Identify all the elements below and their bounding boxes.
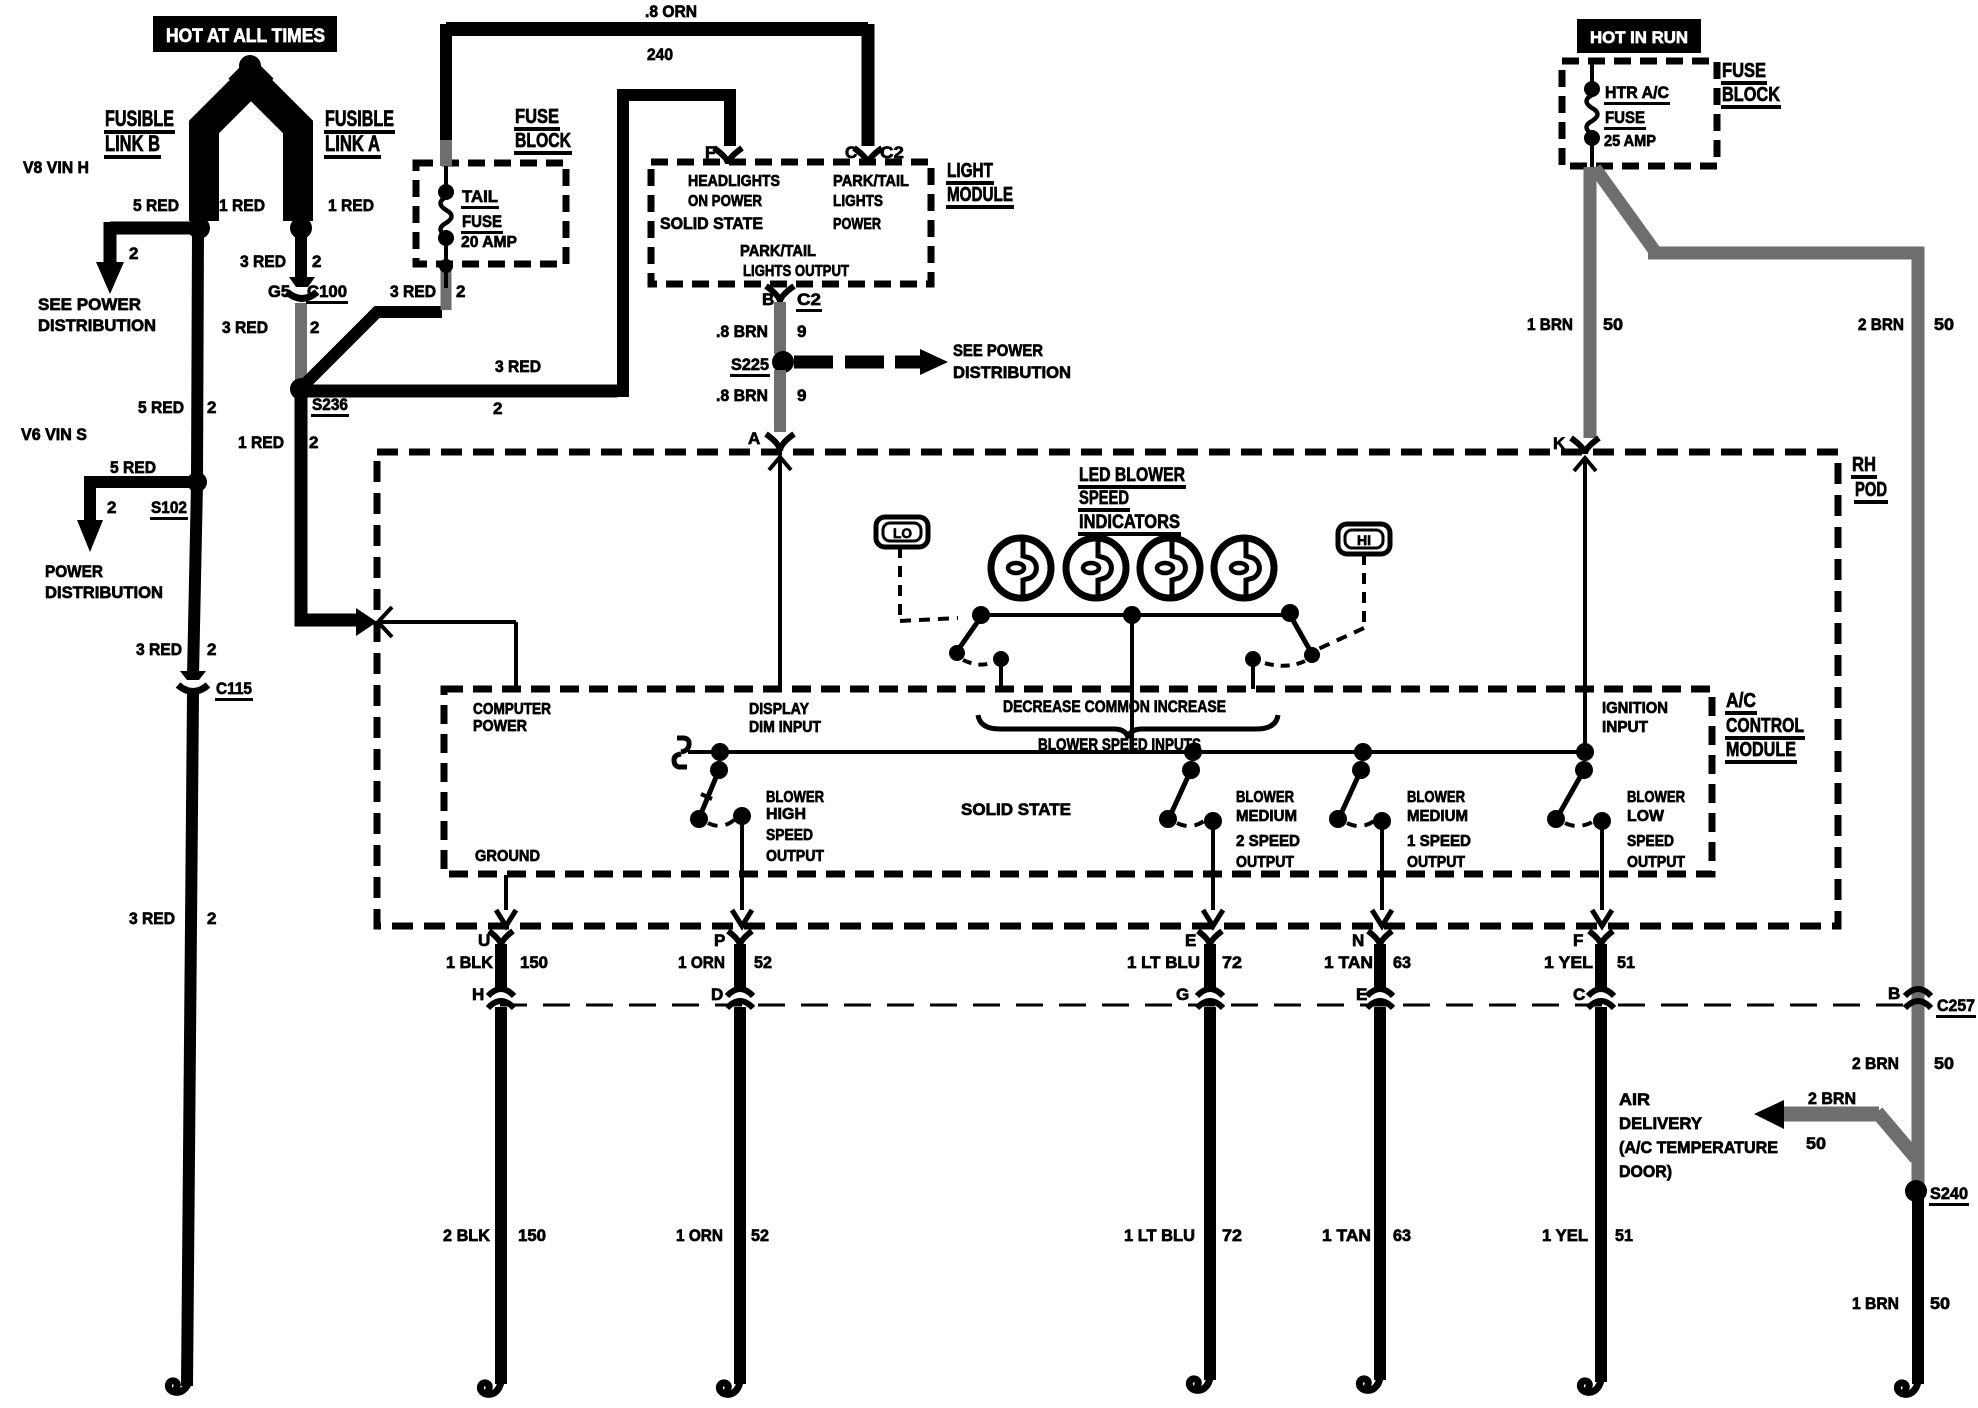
svg-text:1 SPEED: 1 SPEED — [1407, 833, 1471, 850]
svg-text:V8 VIN H: V8 VIN H — [23, 158, 89, 177]
svg-text:50: 50 — [1603, 315, 1623, 334]
LED indicator 2 — [1066, 538, 1126, 598]
label SEE POWER DISTRIBUTION (left) — [38, 295, 156, 335]
svg-text:S236: S236 — [312, 395, 348, 414]
label park/tail lights output — [740, 243, 849, 280]
svg-text:SPEED: SPEED — [766, 827, 813, 844]
LO button — [876, 517, 928, 547]
svg-text:240: 240 — [647, 45, 673, 64]
svg-text:FUSE: FUSE — [462, 212, 502, 231]
svg-text:2: 2 — [207, 640, 216, 659]
splice S236 node — [290, 378, 312, 400]
svg-text:SPEED: SPEED — [1627, 833, 1674, 850]
svg-text:G5: G5 — [268, 282, 290, 301]
label solid state (light module) — [660, 214, 763, 233]
svg-text:.8 BRN: .8 BRN — [716, 386, 768, 405]
label pin G — [1176, 985, 1189, 1004]
svg-text:LIGHT: LIGHT — [947, 160, 993, 182]
svg-text:1 YEL: 1 YEL — [1542, 1226, 1588, 1245]
svg-text:F: F — [1573, 931, 1583, 950]
label 5 RED (fusible link B) — [133, 196, 179, 215]
svg-text:TAIL: TAIL — [462, 187, 498, 206]
fusible link A — [239, 68, 298, 221]
rotary switch increase contact — [1245, 615, 1320, 689]
label park/tail lights power — [833, 173, 909, 233]
air delivery arrow 2 BRN — [1754, 1100, 1916, 1158]
svg-text:1 LT BLU: 1 LT BLU — [1124, 1226, 1195, 1245]
svg-text:LINK B: LINK B — [105, 131, 160, 156]
svg-text:BLOWER: BLOWER — [766, 789, 824, 806]
svg-text:BLOWER: BLOWER — [1627, 789, 1685, 806]
svg-text:S240: S240 — [1930, 1184, 1968, 1203]
svg-text:A: A — [748, 429, 760, 448]
connector C115 symbol — [178, 671, 208, 692]
pin K chevron on RH POD — [1571, 438, 1599, 473]
svg-text:1 RED: 1 RED — [328, 196, 374, 215]
svg-text:1 TAN: 1 TAN — [1322, 1226, 1371, 1245]
svg-text:3 RED: 3 RED — [222, 318, 268, 337]
svg-text:1 BRN: 1 BRN — [1527, 315, 1573, 334]
label SEE POWER DISTRIBUTION (S225) — [953, 341, 1071, 382]
svg-text:BLOWER: BLOWER — [1407, 789, 1465, 806]
svg-text:2 BRN: 2 BRN — [1808, 1089, 1856, 1108]
wire stub below tail fuse (halftone) — [441, 264, 452, 310]
svg-text:2: 2 — [207, 398, 216, 417]
svg-text:U: U — [478, 931, 490, 950]
svg-text:OUTPUT: OUTPUT — [1407, 854, 1465, 871]
A/C control module dashed box — [444, 689, 1712, 874]
svg-text:ON POWER: ON POWER — [688, 193, 762, 210]
pin F chevron on light module — [714, 148, 742, 164]
svg-text:IGNITION: IGNITION — [1602, 700, 1668, 717]
svg-text:C: C — [845, 143, 857, 162]
wire end continuation squiggle (left main) — [168, 1374, 189, 1392]
svg-text:52: 52 — [751, 1226, 769, 1245]
label 1 LT BLU 72 (upper) — [1127, 953, 1242, 972]
svg-text:2 SPEED: 2 SPEED — [1236, 833, 1300, 850]
label 2 (branch) — [129, 244, 138, 263]
label HOT IN RUN — [1577, 19, 1701, 53]
svg-text:PARK/TAIL: PARK/TAIL — [740, 243, 816, 260]
wire 1 YEL below C257 — [1580, 1007, 1601, 1392]
label HTR A/C FUSE 25 AMP — [1604, 83, 1670, 150]
svg-text:1 TAN: 1 TAN — [1324, 953, 1373, 972]
svg-text:LED BLOWER: LED BLOWER — [1079, 465, 1185, 486]
connector D chevrons — [727, 989, 753, 1008]
svg-text:HOT IN RUN: HOT IN RUN — [1590, 28, 1688, 47]
svg-text:MEDIUM: MEDIUM — [1407, 808, 1468, 825]
svg-text:3 RED: 3 RED — [240, 252, 286, 271]
svg-text:2 BRN: 2 BRN — [1858, 315, 1904, 334]
connector C257 dashed line — [500, 1004, 1908, 1007]
svg-text:D: D — [711, 985, 723, 1004]
blower low speed switch — [1547, 743, 1612, 926]
wire end squiggle right — [1897, 1376, 1918, 1394]
label pin E (c257) — [1356, 985, 1367, 1004]
label pin P — [714, 931, 725, 950]
label 3 RED (riser) — [495, 357, 541, 376]
svg-text:5 RED: 5 RED — [133, 196, 179, 215]
svg-text:SOLID STATE: SOLID STATE — [660, 214, 763, 233]
label HI — [1357, 532, 1371, 548]
svg-text:F: F — [705, 143, 715, 162]
svg-text:COMPUTER: COMPUTER — [473, 701, 551, 718]
label DISPLAY DIM INPUT — [749, 701, 821, 736]
svg-text:FUSIBLE: FUSIBLE — [105, 106, 174, 131]
svg-text:B: B — [1888, 984, 1900, 1003]
wire 2 BRN below S240 — [1912, 1194, 1924, 1384]
wire ignition input thin — [1583, 467, 1587, 752]
svg-text:DISTRIBUTION: DISTRIBUTION — [38, 316, 156, 335]
svg-text:1 ORN: 1 ORN — [678, 953, 725, 972]
svg-text:S102: S102 — [151, 498, 187, 517]
svg-text:51: 51 — [1615, 1226, 1633, 1245]
svg-text:5 RED: 5 RED — [138, 398, 184, 417]
label 1 RED 2 — [238, 433, 318, 452]
pin A chevron on RH POD — [766, 434, 794, 472]
svg-text:2: 2 — [207, 909, 216, 928]
label .8 ORN — [645, 2, 697, 21]
svg-text:50: 50 — [1934, 1054, 1954, 1073]
pin N chevron and wire 1 TAN — [1368, 931, 1392, 988]
label 1 ORN 52 (lower) — [676, 1226, 769, 1245]
label POWER DISTRIBUTION — [45, 562, 163, 602]
svg-text:2: 2 — [456, 282, 465, 301]
label C257 — [1936, 996, 1976, 1018]
label V6 VIN S — [21, 425, 87, 444]
label 2 and S102 — [107, 498, 188, 520]
svg-text:S225: S225 — [731, 355, 769, 374]
svg-text:FUSE: FUSE — [1722, 60, 1766, 82]
svg-text:2 BRN: 2 BRN — [1852, 1054, 1899, 1073]
label C115 — [215, 679, 253, 701]
label BLOWER MEDIUM 2 SPEED OUTPUT — [1236, 789, 1300, 871]
svg-text:G: G — [1176, 985, 1189, 1004]
svg-text:POD: POD — [1855, 479, 1887, 501]
blower high speed switch — [690, 743, 752, 926]
label BLOWER MEDIUM 1 SPEED OUTPUT — [1407, 789, 1471, 871]
fuse block (HTR A/C) dashed box — [1562, 61, 1717, 166]
svg-text:9: 9 — [797, 322, 806, 341]
LED indicator 4 — [1214, 538, 1274, 598]
label LED BLOWER SPEED INDICATORS — [1078, 465, 1186, 536]
wire riser to light module pin F — [611, 91, 730, 391]
svg-text:50: 50 — [1930, 1294, 1950, 1313]
wire 1 RED from S236 down then right to RH POD — [301, 394, 356, 620]
svg-text:2: 2 — [107, 498, 116, 517]
svg-text:2: 2 — [493, 399, 502, 418]
label 1 RED (fusible link B) — [219, 196, 265, 215]
svg-text:63: 63 — [1393, 953, 1411, 972]
label A/C CONTROL MODULE — [1725, 690, 1805, 764]
label pin B and C2 — [762, 290, 822, 312]
svg-text:C115: C115 — [216, 679, 252, 698]
wire 5 RED branch to see power distribution with arrow — [96, 222, 199, 294]
label TAIL FUSE 20 AMP — [461, 187, 517, 251]
label HOT AT ALL TIMES — [153, 16, 337, 52]
label SOLID STATE (module) — [961, 800, 1071, 819]
svg-text:1 BLK: 1 BLK — [446, 953, 494, 972]
svg-text:V6 VIN S: V6 VIN S — [21, 425, 87, 444]
HI button — [1338, 524, 1390, 554]
wire S102 branch to power distribution with arrow — [77, 476, 197, 552]
svg-text:2 BLK: 2 BLK — [443, 1226, 491, 1245]
svg-text:1 RED: 1 RED — [238, 433, 284, 452]
pin F chevron and wire 1 YEL — [1589, 931, 1613, 988]
svg-text:SEE POWER: SEE POWER — [38, 295, 141, 314]
svg-text:50: 50 — [1806, 1134, 1826, 1153]
svg-text:50: 50 — [1934, 315, 1954, 334]
label V8 VIN H — [23, 158, 89, 177]
pin P chevron and wire 1 ORN — [728, 931, 752, 988]
label 2 BRN (arrow) — [1808, 1089, 1856, 1108]
svg-text:1 BRN: 1 BRN — [1852, 1294, 1899, 1313]
svg-text:52: 52 — [754, 953, 772, 972]
LED common wire — [972, 604, 1299, 624]
label S236 — [311, 395, 349, 417]
label FUSE BLOCK (htr) — [1721, 60, 1781, 109]
svg-text:150: 150 — [520, 953, 548, 972]
wire 3 RED from C100 down to S236 (halftone) — [295, 303, 307, 383]
label RH POD — [1851, 454, 1888, 504]
svg-text:C2: C2 — [797, 290, 821, 309]
label LO — [893, 525, 912, 541]
label pin C (c257) — [1573, 985, 1585, 1004]
wire 3 RED 2 from S236 right to vertical riser — [301, 385, 617, 398]
svg-text:B: B — [762, 290, 774, 309]
label 1 TAN 63 (lower) — [1322, 1226, 1411, 1245]
svg-text:LIGHTS: LIGHTS — [833, 193, 883, 210]
svg-text:25 AMP: 25 AMP — [1604, 133, 1656, 150]
svg-text:DECREASE COMMON INCREASE: DECREASE COMMON INCREASE — [1003, 697, 1226, 716]
svg-text:SEE POWER: SEE POWER — [953, 341, 1043, 360]
svg-text:HI: HI — [1357, 532, 1371, 548]
label IGNITION INPUT — [1602, 700, 1668, 736]
svg-text:POWER: POWER — [833, 216, 881, 233]
label S240 — [1929, 1184, 1969, 1206]
svg-text:2: 2 — [312, 252, 321, 271]
svg-text:HTR A/C: HTR A/C — [1605, 83, 1669, 102]
label pin D — [711, 985, 723, 1004]
fuse block (TAIL FUSE) dashed box — [416, 163, 566, 264]
label pin H — [472, 985, 484, 1004]
label 2 BLK 150 — [443, 1226, 546, 1245]
splice S240 node — [1905, 1180, 1927, 1202]
connector G chevrons — [1197, 989, 1223, 1008]
connector C chevrons — [1588, 989, 1614, 1008]
svg-text:K: K — [1553, 434, 1566, 453]
svg-text:FUSE: FUSE — [515, 106, 559, 128]
svg-text:C257: C257 — [1937, 996, 1975, 1015]
connector B chevrons — [1905, 989, 1931, 1008]
svg-text:FUSE: FUSE — [1605, 108, 1645, 127]
label FUSE BLOCK (tail) — [514, 106, 572, 155]
label 3 RED 2 (below C100) — [222, 318, 319, 337]
pin E chevron and wire 1 LT BLU — [1198, 931, 1222, 988]
blower medium 2 speed switch — [1159, 743, 1223, 926]
label 1 YEL 51 (upper) — [1544, 953, 1635, 972]
svg-text:INDICATORS: INDICATORS — [1079, 512, 1180, 533]
dashed wire from HI — [1316, 554, 1364, 650]
svg-text:POWER: POWER — [45, 562, 103, 581]
svg-text:POWER: POWER — [473, 718, 527, 735]
svg-text:SPEED: SPEED — [1079, 488, 1129, 509]
svg-text:9: 9 — [797, 386, 806, 405]
svg-text:150: 150 — [518, 1226, 546, 1245]
label pin A — [748, 429, 760, 448]
label FUSIBLE LINK A — [324, 106, 395, 159]
label 1 RED (fusible link A) — [328, 196, 374, 215]
svg-text:(A/C TEMPERATURE: (A/C TEMPERATURE — [1619, 1138, 1778, 1157]
svg-text:INPUT: INPUT — [1602, 719, 1648, 736]
svg-text:DOOR): DOOR) — [1619, 1162, 1672, 1181]
svg-text:2: 2 — [310, 318, 319, 337]
connector C100 symbol — [287, 277, 317, 299]
svg-text:C: C — [1573, 985, 1585, 1004]
svg-text:.8 ORN: .8 ORN — [645, 2, 697, 21]
label .8 BRN 9 (upper) — [716, 322, 806, 341]
label 2 BRN 50 (top) — [1858, 315, 1954, 334]
svg-text:3 RED: 3 RED — [136, 640, 182, 659]
label pin C and C2 — [845, 143, 904, 162]
label 50 (arrow) — [1806, 1134, 1826, 1153]
wire common to blower speed inputs — [1130, 615, 1134, 752]
label DECREASE COMMON INCREASE — [1003, 697, 1226, 716]
battery node — [239, 55, 261, 77]
wire 3 RED diagonal from S236 to fuse block stub — [301, 312, 442, 388]
svg-text:A/C: A/C — [1726, 690, 1756, 712]
svg-text:RH: RH — [1852, 454, 1876, 476]
label headlights on power — [688, 173, 780, 210]
svg-text:3 RED: 3 RED — [129, 909, 175, 928]
wire 3 RED from fusible link A down to C100 — [295, 232, 307, 280]
wire .8 BRN from S225 to pin A (halftone) — [774, 370, 786, 432]
dashed wire from LO — [900, 547, 958, 621]
svg-text:HIGH: HIGH — [766, 806, 806, 823]
brace blower speed inputs — [978, 715, 1278, 738]
svg-text:.8 BRN: .8 BRN — [716, 322, 768, 341]
svg-text:72: 72 — [1222, 953, 1242, 972]
label 1 BRN 50 — [1527, 315, 1623, 334]
label pin F (low) — [1573, 931, 1583, 950]
wire .8 BRN from pin B to S225 (halftone) — [774, 302, 786, 354]
label BLOWER HIGH SPEED OUTPUT — [766, 789, 824, 865]
node below fusible link A — [290, 217, 312, 239]
svg-text:OUTPUT: OUTPUT — [766, 848, 824, 865]
svg-text:BLOWER: BLOWER — [1236, 789, 1294, 806]
label 1 BLK 150 — [446, 953, 548, 972]
svg-text:E: E — [1185, 931, 1196, 950]
svg-text:H: H — [472, 985, 484, 1004]
LED indicator 1 — [991, 538, 1051, 598]
svg-text:DISTRIBUTION: DISTRIBUTION — [953, 363, 1071, 382]
wire display dim input — [778, 466, 782, 689]
label 3 RED 2 (lower left) — [129, 909, 216, 928]
label 5 RED 2 (main) — [138, 398, 216, 417]
svg-text:3 RED: 3 RED — [390, 282, 436, 301]
wire 2 BLK below C257 — [480, 1007, 501, 1394]
label 3 RED 2 (above C115) — [136, 640, 216, 659]
label LIGHT MODULE — [946, 160, 1014, 209]
svg-text:1 YEL: 1 YEL — [1544, 953, 1593, 972]
connector H chevrons — [488, 989, 514, 1008]
svg-text:P: P — [714, 931, 725, 950]
svg-text:GROUND: GROUND — [475, 848, 540, 865]
svg-text:LO: LO — [893, 525, 912, 541]
svg-text:5 RED: 5 RED — [110, 458, 156, 477]
svg-text:1 LT BLU: 1 LT BLU — [1127, 953, 1200, 972]
arrow into RH POD at computer power — [356, 607, 392, 637]
wire 5 RED main left vertical — [187, 230, 198, 1386]
svg-text:2: 2 — [309, 433, 318, 452]
label pin E — [1185, 931, 1196, 950]
ground output wire with arrow — [496, 875, 516, 926]
connector E chevrons — [1367, 989, 1393, 1008]
svg-text:MEDIUM: MEDIUM — [1236, 808, 1297, 825]
label pin U — [478, 931, 490, 950]
svg-text:20 AMP: 20 AMP — [461, 234, 517, 251]
svg-text:C2: C2 — [880, 143, 904, 162]
svg-text:OUTPUT: OUTPUT — [1236, 854, 1294, 871]
svg-text:BLOWER SPEED INPUTS: BLOWER SPEED INPUTS — [1038, 735, 1201, 754]
svg-text:LINK A: LINK A — [325, 131, 380, 156]
wire 2 BRN fuse diagonal and right side run (halftone) — [1595, 168, 1918, 1188]
module main wire with hook — [674, 738, 1585, 767]
svg-text:SOLID STATE: SOLID STATE — [961, 800, 1071, 819]
svg-text:MODULE: MODULE — [947, 184, 1013, 206]
svg-text:63: 63 — [1393, 1226, 1411, 1245]
label AIR DELIVERY — [1619, 1090, 1778, 1181]
svg-text:51: 51 — [1617, 953, 1635, 972]
splice S102 node — [187, 472, 207, 492]
wire .8 ORN 240 top — [446, 24, 868, 166]
label GROUND — [475, 848, 540, 865]
label 1 LT BLU 72 (lower) — [1124, 1226, 1242, 1245]
fusible link B — [204, 68, 263, 221]
label 1 YEL 51 (lower) — [1542, 1226, 1633, 1245]
svg-text:BLOCK: BLOCK — [1722, 84, 1780, 106]
blower medium 1 speed switch — [1329, 743, 1392, 926]
svg-text:DISTRIBUTION: DISTRIBUTION — [45, 583, 163, 602]
svg-text:DIM INPUT: DIM INPUT — [749, 719, 821, 736]
svg-text:AIR: AIR — [1619, 1090, 1650, 1109]
pin B chevron on light module bottom — [766, 286, 794, 302]
label pin K — [1553, 434, 1566, 453]
node below fusible link B — [188, 217, 210, 239]
svg-text:3 RED: 3 RED — [495, 357, 541, 376]
LED indicator 3 — [1140, 538, 1200, 598]
RH POD dashed box — [377, 452, 1838, 926]
label 1 ORN 52 (upper) — [678, 953, 772, 972]
label .8 BRN 9 (lower) — [716, 386, 806, 405]
label 240 — [647, 45, 673, 64]
svg-text:2: 2 — [129, 244, 138, 263]
label 5 RED (S102) — [110, 458, 156, 477]
wire 1 ORN below C257 — [719, 1007, 740, 1394]
label 2 BRN 50 (middle) — [1852, 1054, 1954, 1073]
wire thin to computer power input — [380, 622, 516, 689]
svg-text:CONTROL: CONTROL — [1726, 715, 1804, 737]
label pin N — [1352, 931, 1364, 950]
splice S225 node — [772, 351, 794, 373]
svg-text:OUTPUT: OUTPUT — [1627, 854, 1685, 871]
svg-text:DELIVERY: DELIVERY — [1619, 1114, 1703, 1133]
label 3 RED 2 (above C100) — [240, 252, 321, 271]
svg-text:LIGHTS OUTPUT: LIGHTS OUTPUT — [743, 263, 849, 280]
label 1 TAN 63 (upper) — [1324, 953, 1411, 972]
label S225 — [730, 355, 770, 377]
wire 1 LT BLU below C257 — [1189, 1007, 1210, 1390]
